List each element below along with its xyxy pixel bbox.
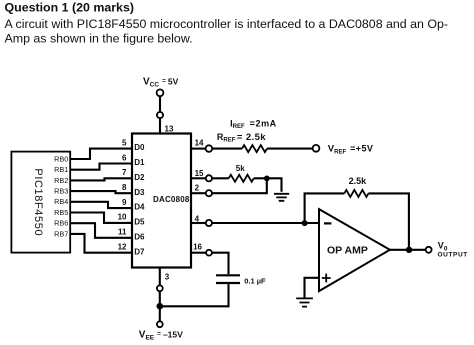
svg-text:14: 14	[195, 138, 204, 147]
svg-text:Amp as shown in the figure bel: Amp as shown in the figure below.	[5, 31, 193, 45]
svg-text:RB0: RB0	[54, 154, 68, 163]
svg-text:10: 10	[118, 213, 127, 222]
svg-text:7: 7	[122, 168, 127, 177]
svg-text:5: 5	[122, 138, 127, 147]
svg-text:6: 6	[122, 153, 127, 162]
svg-text:11: 11	[118, 228, 127, 237]
svg-text:RB5: RB5	[54, 208, 68, 217]
svg-text:D0: D0	[134, 143, 145, 152]
svg-text:15: 15	[195, 169, 204, 178]
svg-text:RB4: RB4	[54, 197, 68, 206]
svg-text:IREF=2mA: IREF=2mA	[230, 118, 277, 130]
svg-text:RB1: RB1	[54, 165, 68, 174]
svg-text:3: 3	[165, 272, 170, 281]
svg-text:VREF=+5V: VREF=+5V	[328, 143, 373, 155]
svg-text:0.1 μF: 0.1 μF	[244, 277, 266, 286]
svg-text:12: 12	[118, 243, 127, 252]
svg-text:RREF= 2.5k: RREF= 2.5k	[217, 132, 266, 144]
svg-text:D6: D6	[134, 232, 145, 241]
svg-text:OP AMP: OP AMP	[327, 244, 368, 256]
svg-text:4: 4	[195, 215, 200, 224]
svg-text:D3: D3	[134, 188, 145, 197]
svg-text:RB6: RB6	[54, 219, 68, 228]
svg-text:VEE=–15V: VEE=–15V	[139, 329, 183, 341]
svg-text:8: 8	[122, 183, 127, 192]
svg-text:16: 16	[193, 242, 202, 251]
svg-text:Question 1 (20 marks): Question 1 (20 marks)	[5, 1, 134, 15]
svg-text:9: 9	[122, 198, 127, 207]
svg-text:D2: D2	[134, 173, 145, 182]
svg-text:D1: D1	[134, 158, 145, 167]
svg-text:PIC18F4550: PIC18F4550	[32, 168, 44, 236]
svg-text:VCC=5V: VCC=5V	[143, 76, 179, 88]
svg-text:D7: D7	[134, 247, 145, 256]
svg-text:OUTPUT: OUTPUT	[438, 252, 468, 259]
svg-text:D5: D5	[134, 218, 145, 227]
svg-text:2: 2	[195, 184, 200, 193]
svg-text:2.5k: 2.5k	[349, 176, 368, 186]
svg-text:RB3: RB3	[54, 187, 68, 196]
svg-text:RB2: RB2	[54, 176, 68, 185]
svg-text:D4: D4	[134, 203, 145, 212]
svg-text:5k: 5k	[236, 164, 245, 173]
svg-text:RB7: RB7	[54, 229, 68, 238]
svg-text:13: 13	[165, 125, 174, 134]
svg-text:A circuit with PIC18F4550 micr: A circuit with PIC18F4550 microcontrolle…	[5, 17, 449, 31]
svg-text:DAC0808: DAC0808	[153, 195, 190, 204]
